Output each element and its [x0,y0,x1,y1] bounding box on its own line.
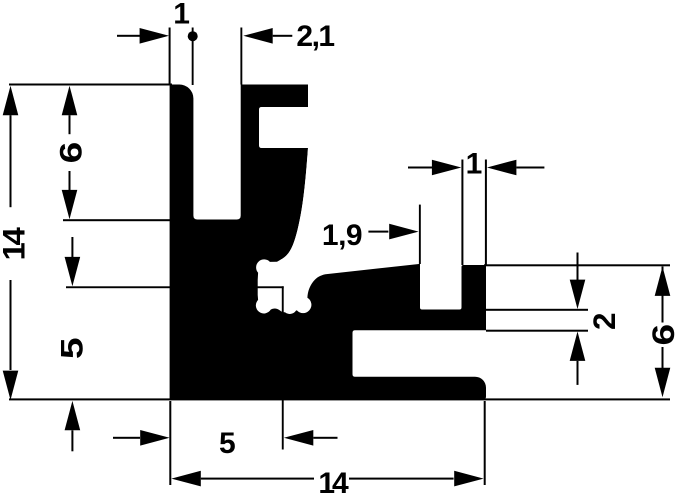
dimension 6 (right): dim line + arrows + rotated label [655,267,671,398]
dimension 14 (bottom): line + arrows + label [171,471,483,487]
svg-text:1: 1 [173,0,190,30]
bottom extension lines [169,401,485,485]
bottom edge extension line (y=399.4, spans left and right of profile) [9,398,670,400]
clip channel + screw pocket (white cutout) [256,146,420,314]
svg-text:1: 1 [466,147,483,180]
dimension 1 (top left): line + arrow + label + extension lines + dot [117,28,198,86]
dimension 2,1 (top): arrow + line + label + extension line [240,28,292,85]
dimension 14 (left): arrows + rotated label [3,86,19,400]
svg-text:2,1: 2,1 [296,20,334,53]
dimension 1 (top right, rib width): extension lines + arrows + label [408,160,544,266]
svg-text:1,9: 1,9 [322,219,362,252]
svg-text:5: 5 [54,337,90,359]
dimension 5 (left): outside arrows + rotated label [65,237,81,451]
svg-text:6: 6 [646,324,682,346]
dimension 5 (bottom): line + arrows + label [113,430,338,446]
svg-text:14: 14 [318,467,349,500]
svg-text:2: 2 [586,313,622,331]
dimension 2 (right): extension lines + outside arrows + rotated label [484,253,670,385]
top edge extension line (y=84.5) [9,84,172,86]
dimension 6 (left): arrows + rotated label + extension line y=220 [62,86,172,221]
svg-text:14: 14 [0,227,31,260]
heatsink profile silhouette (black body) [170,84,486,399]
svg-text:6: 6 [53,142,89,164]
svg-text:5: 5 [219,427,236,460]
screw pocket reference lines (thin L corner, extends left and down) [66,286,284,449]
